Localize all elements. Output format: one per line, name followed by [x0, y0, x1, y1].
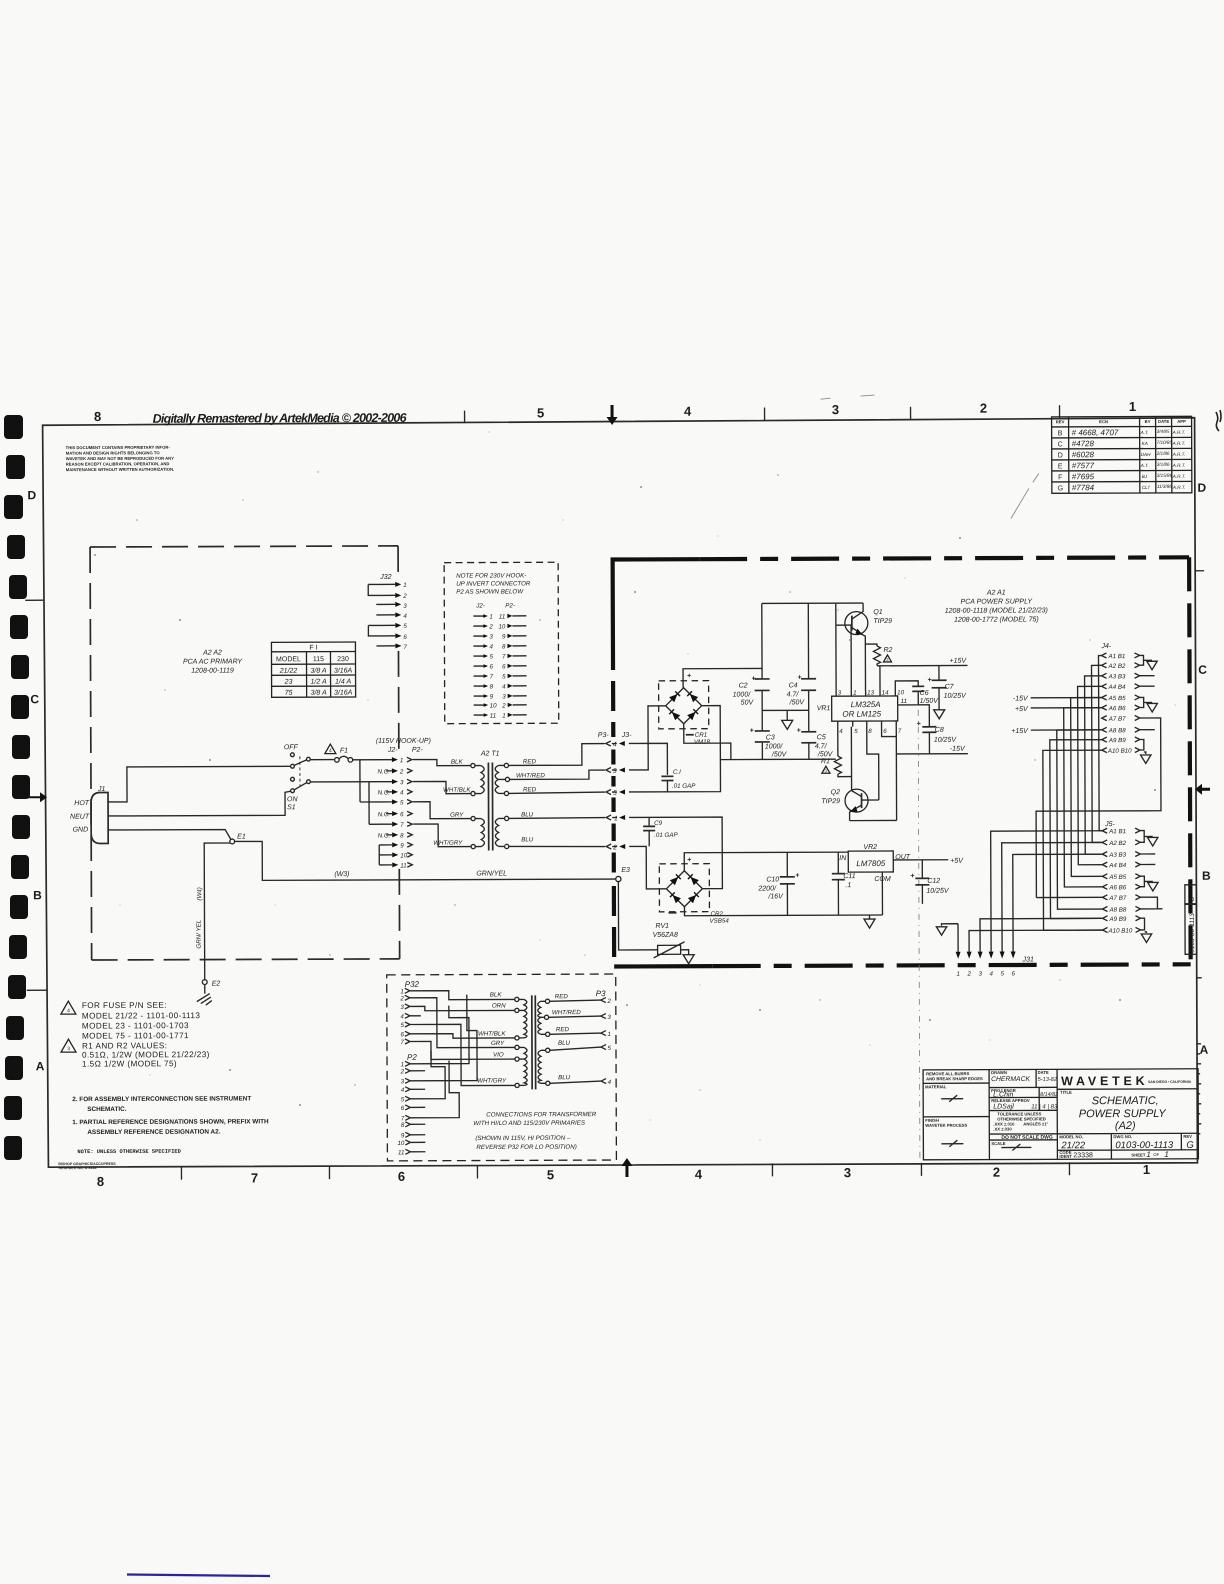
CR1 AC input from J3 pin5	[629, 706, 721, 792]
mid tie rail with ground	[762, 710, 809, 720]
svg-text:C9: C9	[654, 820, 662, 827]
svg-text:8: 8	[490, 683, 494, 690]
schematic title	[1079, 1095, 1167, 1132]
svg-text:TIP29: TIP29	[821, 798, 840, 805]
svg-text:7: 7	[400, 822, 404, 829]
svg-text:MATERIAL: MATERIAL	[925, 1084, 947, 1089]
wire T1 RED to J3 pin4	[508, 744, 605, 766]
wire E1 to E2 (GRN/YEL W4)	[204, 843, 231, 980]
svg-text:.01 GAP: .01 GAP	[654, 832, 678, 839]
svg-text:+: +	[928, 677, 932, 684]
svg-text:3: 3	[838, 690, 842, 697]
svg-text:RED: RED	[523, 758, 537, 765]
svg-text:4: 4	[502, 683, 506, 690]
svg-text:3: 3	[400, 1004, 404, 1011]
svg-text:6: 6	[401, 1105, 405, 1112]
svg-text:A: A	[36, 1059, 45, 1073]
svg-text:A.R.T.: A.R.T.	[1172, 441, 1186, 446]
svg-text:ORN: ORN	[492, 1002, 506, 1009]
fuse and resistor notes	[61, 1001, 210, 1069]
svg-text:P3-: P3-	[598, 732, 610, 739]
svg-text:7: 7	[898, 728, 902, 735]
svg-text:2: 2	[612, 844, 617, 851]
svg-text:WHT/BLK: WHT/BLK	[478, 1030, 506, 1037]
svg-text:11: 11	[398, 1149, 404, 1156]
svg-text:8: 8	[401, 1122, 405, 1129]
svg-text:G: G	[1186, 1140, 1193, 1151]
svg-text:+5V: +5V	[1015, 706, 1029, 713]
svg-text:2: 2	[993, 1165, 1000, 1180]
svg-text:C11: C11	[843, 873, 855, 880]
wire J2 pin3 to T1 WHT/BLK	[413, 781, 471, 793]
svg-text:5: 5	[400, 799, 404, 806]
svg-text:N.C.: N.C.	[378, 789, 390, 796]
svg-text:BLK: BLK	[490, 991, 503, 998]
svg-text:1. PARTIAL REFERENCE DESIGNAT: 1. PARTIAL REFERENCE DESIGNATIONS SHOWN,…	[72, 1118, 269, 1126]
A2 A2 assembly label	[183, 649, 244, 674]
svg-text:OF: OF	[1153, 1152, 1159, 1157]
drawing number side tabs	[1185, 885, 1197, 955]
CR2 + wire to VR2 input rail	[684, 852, 848, 871]
svg-text:4: 4	[989, 971, 993, 978]
svg-text:0103-00-1113: 0103-00-1113	[1189, 913, 1196, 953]
svg-text:6: 6	[883, 728, 887, 735]
svg-text:3: 3	[832, 402, 839, 417]
svg-text:6: 6	[400, 1031, 404, 1038]
pin7 vertical	[895, 726, 897, 820]
svg-text:4.7/: 4.7/	[815, 743, 828, 750]
svg-text:#7577: #7577	[1072, 461, 1095, 470]
svg-text:5: 5	[489, 653, 493, 660]
svg-text:SAN DIEGO • CALIFORNIA: SAN DIEGO • CALIFORNIA	[1148, 1080, 1192, 1084]
svg-text:Digitally Remastered by ArtekM: Digitally Remastered by ArtekMedia © 200…	[153, 411, 408, 426]
svg-text:2: 2	[399, 995, 404, 1002]
svg-text:+: +	[752, 675, 756, 682]
pin10/11 loop and capacitor C6 .1/50V	[895, 681, 939, 705]
svg-text:1.5Ω 1/2W (MODEL 75): 1.5Ω 1/2W (MODEL 75)	[82, 1059, 177, 1068]
svg-text:4: 4	[400, 1013, 404, 1020]
bridge rectifier CR2 VSB54	[659, 857, 729, 925]
svg-text:A5 B5: A5 B5	[1108, 695, 1126, 702]
svg-text:8: 8	[502, 643, 506, 650]
resistor R1	[821, 727, 852, 777]
svg-text:A2 B2: A2 B2	[1108, 840, 1126, 847]
115V hookup label	[376, 738, 431, 754]
svg-text:1208-00-1118 (MODEL 21/22/23): 1208-00-1118 (MODEL 21/22/23)	[945, 607, 1048, 614]
svg-text:.1: .1	[845, 882, 851, 889]
P32 transformer wire labels	[477, 991, 507, 1084]
svg-text:WHT/GRY: WHT/GRY	[433, 840, 463, 847]
svg-text:DAH: DAH	[1141, 452, 1151, 457]
svg-text:BLU: BLU	[521, 811, 534, 818]
svg-text:VR2: VR2	[863, 844, 877, 851]
svg-text:10/25V: 10/25V	[934, 737, 958, 744]
capacitor C8 10/25V	[917, 705, 958, 754]
svg-text:23: 23	[284, 679, 293, 686]
svg-text:21/22: 21/22	[279, 668, 298, 675]
transistor Q1 TIP29	[836, 603, 893, 691]
svg-text:V56ZA8: V56ZA8	[653, 932, 678, 939]
svg-text:7/10/85: 7/10/85	[1157, 440, 1173, 445]
svg-text:P2: P2	[407, 1053, 417, 1062]
svg-text:WHT/RED: WHT/RED	[516, 772, 545, 779]
svg-text:2/1/86: 2/1/86	[1156, 451, 1170, 456]
Q2 emitter bottom wire to pin7	[850, 819, 897, 821]
svg-text:RED: RED	[556, 1026, 570, 1033]
svg-text:+: +	[798, 674, 802, 681]
svg-text:/50V: /50V	[789, 699, 806, 706]
wire HOT to switch	[108, 766, 290, 802]
svg-text:/50V: /50V	[817, 751, 834, 758]
svg-text:8: 8	[400, 832, 404, 839]
svg-text:VM18: VM18	[694, 739, 711, 746]
svg-text:HOT: HOT	[74, 800, 90, 807]
svg-text:P2-: P2-	[412, 747, 424, 754]
svg-text:7: 7	[401, 1039, 405, 1046]
svg-text:REVERSE P32 FOR LO POSITION): REVERSE P32 FOR LO POSITION)	[476, 1144, 576, 1151]
svg-text:/50V: /50V	[771, 751, 788, 758]
svg-text:1: 1	[853, 690, 856, 697]
svg-text:TITLE: TITLE	[1060, 1090, 1072, 1095]
svg-text:P32: P32	[405, 980, 420, 989]
svg-text:11: 11	[400, 862, 406, 869]
svg-text:+: +	[910, 873, 914, 880]
svg-text:3: 3	[502, 693, 506, 700]
svg-text:B: B	[1202, 869, 1211, 883]
svg-text:(A2): (A2)	[1115, 1120, 1136, 1132]
svg-text:SHEET: SHEET	[1131, 1152, 1145, 1157]
svg-text:3/8 A: 3/8 A	[310, 668, 326, 675]
svg-text:+: +	[687, 673, 691, 680]
-15V rail upper	[896, 746, 968, 754]
svg-text:5: 5	[1000, 971, 1004, 978]
svg-text:11: 11	[901, 698, 907, 705]
J4 power feed wires	[1011, 695, 1102, 735]
svg-text:.01 GAP: .01 GAP	[672, 783, 696, 790]
svg-text:50V: 50V	[741, 699, 755, 706]
svg-text:RED: RED	[523, 786, 537, 793]
general notes	[72, 1095, 269, 1136]
svg-text:C5: C5	[817, 734, 826, 741]
svg-text:4: 4	[608, 1079, 612, 1086]
svg-text:+15V: +15V	[1011, 728, 1029, 735]
svg-text:BLK: BLK	[451, 759, 464, 766]
svg-text:D: D	[1197, 481, 1206, 495]
svg-text:+: +	[795, 872, 799, 879]
svg-text:2: 2	[966, 971, 971, 978]
svg-text:B: B	[1058, 430, 1063, 437]
svg-text:4: 4	[67, 1008, 70, 1014]
svg-text:3: 3	[401, 1078, 405, 1085]
J3 pin2 wire to CR2	[629, 846, 666, 889]
svg-text:A.R.T.: A.R.T.	[1172, 430, 1186, 435]
svg-text:A6 B6: A6 B6	[1108, 884, 1126, 891]
svg-text:ECN: ECN	[1099, 419, 1108, 424]
transformer wire labels	[433, 758, 546, 846]
J3 pin1 wire to CR2	[629, 817, 722, 889]
svg-text:(115V HOOK-UP): (115V HOOK-UP)	[376, 738, 431, 745]
P32 transformer	[515, 995, 550, 1089]
svg-text:MATION AND DESIGN RIGHTS: MATION AND DESIGN RIGHTS BELONGING TO	[66, 450, 161, 455]
svg-text:MODEL 75 - 1101-00-1771: MODEL 75 - 1101-00-1771	[82, 1031, 189, 1040]
wire NEUT to switch ON	[108, 791, 291, 816]
svg-text:-15V: -15V	[950, 746, 966, 753]
connector J1 (line input)	[70, 786, 108, 844]
svg-text:E1: E1	[237, 833, 246, 840]
rail stubs C2/C4 columns	[762, 603, 809, 759]
ground near J31 pin1	[936, 927, 946, 936]
svg-text:0.51Ω, 1/2W (MODEL 21/22/23): 0.51Ω, 1/2W (MODEL 21/22/23)	[82, 1050, 210, 1059]
svg-text:BLU: BLU	[521, 836, 534, 843]
svg-text:2. FOR ASSEMBLY INTERCONNECTI: 2. FOR ASSEMBLY INTERCONNECTION SEE INST…	[72, 1095, 251, 1103]
J5 wires to J31	[941, 831, 1102, 952]
svg-text:10: 10	[490, 702, 497, 709]
svg-text:4: 4	[613, 741, 617, 748]
svg-text:/16V: /16V	[767, 893, 784, 900]
lower rail to R1	[720, 758, 835, 760]
CR1 AC input from J3 pin3	[629, 706, 666, 770]
svg-text:F: F	[1058, 474, 1062, 481]
switch S1	[284, 744, 311, 811]
svg-text:#7784: #7784	[1072, 483, 1095, 492]
svg-text:A6 B6: A6 B6	[1108, 705, 1126, 712]
svg-text:1208-00-1119: 1208-00-1119	[191, 667, 234, 674]
svg-text:A: A	[1200, 1043, 1209, 1057]
svg-text:N.C.: N.C.	[378, 768, 390, 775]
svg-text:R1 AND R2 VALUES:: R1 AND R2 VALUES:	[82, 1041, 167, 1050]
CR1 - output wire	[684, 724, 731, 760]
svg-text:5: 5	[854, 728, 858, 735]
svg-text:3/16A: 3/16A	[334, 690, 353, 697]
svg-text:+: +	[797, 727, 801, 734]
svg-text:6: 6	[502, 663, 506, 670]
J4 to J5 interconnect bundle	[1035, 656, 1102, 931]
svg-text:R1: R1	[821, 758, 830, 765]
svg-text:WHT/BLK: WHT/BLK	[443, 787, 471, 794]
svg-text:9: 9	[400, 842, 404, 849]
svg-text:A.R.T.: A.R.T.	[1172, 452, 1186, 457]
svg-text:C: C	[1058, 441, 1063, 448]
regulator VR2 LM7805	[839, 844, 911, 915]
svg-text:7: 7	[251, 1170, 258, 1185]
svg-text:GND: GND	[73, 827, 89, 834]
svg-text:WHT/GRY: WHT/GRY	[477, 1077, 507, 1084]
svg-text:G: G	[1189, 897, 1196, 902]
svg-text:14: 14	[882, 689, 889, 696]
resistor R2	[865, 644, 892, 666]
fuse F1	[310, 744, 392, 762]
svg-text:BLU: BLU	[558, 1074, 571, 1081]
svg-text:8/14/82: 8/14/82	[1040, 1092, 1058, 1098]
svg-text:C12: C12	[927, 878, 940, 885]
pin8 wire to Q2 base	[867, 727, 879, 801]
svg-text:A.R.T.: A.R.T.	[1172, 463, 1186, 468]
svg-text:5: 5	[607, 1045, 611, 1052]
svg-text:5: 5	[400, 1022, 404, 1029]
svg-text:SCHEMATIC,: SCHEMATIC,	[1092, 1095, 1159, 1107]
capacitor C11 .1	[832, 852, 856, 915]
svg-text:3: 3	[67, 1046, 70, 1052]
svg-text:3: 3	[613, 768, 617, 775]
svg-text:P3: P3	[596, 989, 606, 998]
svg-text:GRN/YEL: GRN/YEL	[476, 870, 507, 877]
svg-text:C: C	[1198, 663, 1207, 677]
svg-text:8: 8	[94, 409, 101, 424]
svg-text:UP INVERT CONNECTOR: UP INVERT CONNECTOR	[456, 580, 531, 587]
svg-text:1: 1	[956, 971, 959, 978]
regulator U VR1 LM325A	[817, 689, 908, 735]
svg-text:REV: REV	[1183, 1134, 1192, 1139]
J4 right side grounds	[1035, 655, 1161, 897]
svg-text:9: 9	[502, 633, 506, 640]
svg-text:DATE: DATE	[1038, 1070, 1049, 1075]
svg-text:+5V: +5V	[950, 858, 964, 865]
svg-text:2: 2	[399, 768, 404, 775]
svg-text:21/22: 21/22	[1060, 1140, 1086, 1151]
CR2 - wire to common rail	[684, 906, 882, 916]
connector J5	[1102, 821, 1162, 943]
svg-text:A3 B3: A3 B3	[1108, 673, 1126, 680]
svg-text:4: 4	[329, 748, 332, 754]
svg-text:R2: R2	[883, 647, 892, 654]
svg-text:10: 10	[897, 689, 904, 696]
svg-text:LM7805: LM7805	[856, 859, 885, 868]
svg-text:MODEL 23 - 1101-00-1703: MODEL 23 - 1101-00-1703	[82, 1021, 189, 1030]
svg-text:G: G	[1058, 485, 1063, 492]
svg-text:SCHEMATIC.: SCHEMATIC.	[87, 1106, 127, 1113]
svg-text:C2: C2	[739, 683, 748, 690]
svg-text:A9 B9: A9 B9	[1108, 737, 1126, 744]
svg-text:E2: E2	[212, 981, 221, 988]
svg-text:POWER SUPPLY: POWER SUPPLY	[1079, 1108, 1167, 1120]
ground symbol below C2/C3 tie	[782, 720, 793, 729]
svg-text:J2-: J2-	[475, 603, 485, 610]
node E2	[202, 980, 220, 988]
raw DC top rail	[762, 602, 863, 604]
svg-text:1000/: 1000/	[765, 743, 784, 750]
fuse table F1	[271, 642, 355, 697]
svg-text:11: 11	[490, 712, 496, 719]
svg-text:7: 7	[490, 673, 494, 680]
svg-text:2: 2	[402, 593, 407, 600]
wire T1 RED to J3 pin5	[509, 792, 606, 793]
svg-text:#6028: #6028	[1072, 450, 1095, 459]
svg-text:Q1: Q1	[873, 609, 882, 616]
+5V output wire	[893, 858, 964, 865]
svg-text:1/2 A: 1/2 A	[311, 679, 327, 686]
svg-text:IN: IN	[839, 855, 847, 862]
svg-text:4: 4	[695, 1167, 703, 1182]
svg-text:7: 7	[403, 644, 407, 651]
svg-text:DRAWN: DRAWN	[991, 1070, 1007, 1075]
svg-text:P2 AS SHOWN BELOW: P2 AS SHOWN BELOW	[456, 588, 524, 595]
svg-text:OR LM125: OR LM125	[842, 709, 881, 718]
svg-text:3/8 A: 3/8 A	[311, 690, 327, 697]
capacitor C12 10/25V	[910, 860, 950, 904]
connector J2 / P2 pins	[311, 757, 412, 870]
capacitor C9 .01 GAP	[643, 817, 678, 846]
svg-text:4: 4	[489, 643, 493, 650]
svg-text:.XX ±.030: .XX ±.030	[993, 1126, 1012, 1131]
title block	[923, 1069, 1198, 1160]
svg-text:3/15/86: 3/15/86	[1157, 473, 1173, 478]
svg-text:FOR FUSE P/N SEE:: FOR FUSE P/N SEE:	[82, 1001, 167, 1010]
svg-text:6: 6	[490, 663, 494, 670]
svg-text:115: 115	[313, 656, 324, 663]
svg-text:10/25V: 10/25V	[944, 693, 968, 700]
svg-text:A3 B3: A3 B3	[1108, 852, 1126, 859]
connector P32	[399, 980, 419, 1046]
svg-text:1: 1	[1129, 399, 1136, 414]
wire T1 BLU to J3 pin1	[509, 817, 606, 820]
svg-text:A10 B10: A10 B10	[1107, 748, 1132, 755]
svg-text:F I: F I	[309, 645, 317, 652]
svg-text:3: 3	[403, 603, 407, 610]
svg-text:C6: C6	[920, 690, 929, 697]
svg-text:#4728: #4728	[1072, 439, 1095, 448]
node E3	[616, 867, 630, 882]
capacitor C7 10/25V	[928, 665, 968, 718]
svg-text:DATE: DATE	[1158, 419, 1169, 424]
svg-text:11 | 4 | 83: 11 | 4 | 83	[1031, 1104, 1058, 1110]
svg-text:CONNECTIONS FOR TRANSFORMER: CONNECTIONS FOR TRANSFORMER	[486, 1111, 597, 1118]
svg-text:TIP29: TIP29	[873, 618, 892, 625]
svg-text:C8: C8	[935, 727, 944, 734]
svg-text:11: 11	[499, 613, 505, 620]
capacitor C2 1000/50V	[733, 675, 770, 706]
CR1 + output wire to raw rail	[683, 668, 762, 687]
230V hookup note box	[444, 562, 559, 723]
svg-text:PCA POWER SUPPLY: PCA POWER SUPPLY	[961, 598, 1034, 605]
wire GND to node E1	[108, 829, 231, 840]
svg-text:B: B	[33, 888, 42, 902]
svg-text:PCA AC PRIMARY: PCA AC PRIMARY	[183, 658, 243, 665]
svg-text:1/4 A: 1/4 A	[335, 679, 351, 686]
svg-text:A.R.T.: A.R.T.	[1172, 474, 1186, 479]
svg-text:C3: C3	[766, 734, 775, 741]
svg-text:4: 4	[403, 613, 407, 620]
svg-text:8: 8	[97, 1174, 104, 1189]
svg-text:3: 3	[607, 1014, 611, 1021]
svg-text:1208-00-1772 (MODEL 75): 1208-00-1772 (MODEL 75)	[954, 616, 1039, 623]
svg-text:J31: J31	[1022, 956, 1034, 963]
svg-text:10: 10	[400, 852, 407, 859]
varistor RV1 V56ZA8	[618, 881, 694, 964]
P32/P2 crossing wires to transformer	[410, 990, 515, 1117]
svg-text:CR1: CR1	[695, 732, 707, 739]
bridge rectifier CR1 VM18	[659, 673, 711, 746]
svg-text:P2-: P2-	[505, 602, 515, 609]
svg-text:4: 4	[401, 1087, 405, 1094]
svg-text:N.C.: N.C.	[378, 811, 390, 818]
svg-text:230: 230	[337, 656, 349, 663]
capacitor C3 1000/50V	[750, 727, 788, 758]
svg-text:VSB54: VSB54	[709, 918, 729, 925]
svg-text:RELEASE APPROV: RELEASE APPROV	[991, 1098, 1030, 1103]
svg-text:A2 A2: A2 A2	[202, 650, 222, 657]
P32 caption	[473, 1111, 597, 1151]
svg-text:3: 3	[844, 1165, 851, 1180]
svg-text:5: 5	[401, 1096, 405, 1103]
svg-text:11/3/86: 11/3/86	[1157, 484, 1172, 489]
svg-text:ASSEMBLY REFERENCE DESIGNATION: ASSEMBLY REFERENCE DESIGNATION A2.	[87, 1129, 220, 1137]
svg-text:3: 3	[489, 633, 493, 640]
connector P3/J3 chevrons	[598, 732, 633, 852]
svg-text:10/25V: 10/25V	[926, 888, 950, 895]
svg-text:1: 1	[1143, 1162, 1150, 1177]
J3 pin4 wire to C1	[629, 743, 668, 775]
svg-text:WHT/RED: WHT/RED	[552, 1009, 581, 1016]
